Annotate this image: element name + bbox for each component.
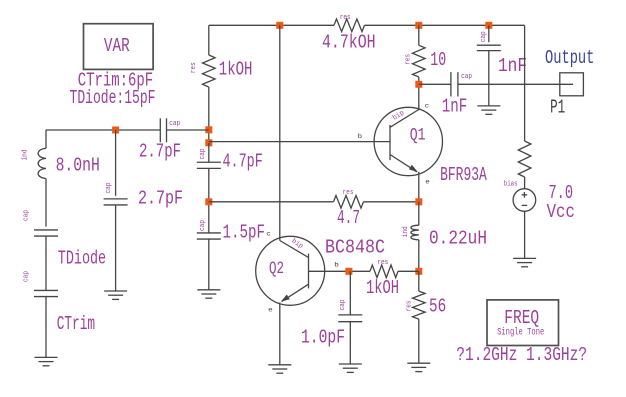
capacitor C 1nF shunt — [477, 31, 527, 77]
svg-text:cap: cap — [480, 31, 488, 42]
resistor R 56 — [406, 291, 447, 319]
simulation box FREQ — [487, 300, 559, 346]
port P1 — [545, 47, 594, 119]
resistor R 4.7 — [334, 189, 364, 229]
wire mid rail b — [208, 168, 210, 233]
capacitor C 1nF series — [442, 72, 472, 117]
wire Q1 collector — [418, 84, 420, 110]
capacitor C 4.7pF — [197, 149, 263, 173]
node junction rail-cap — [205, 126, 212, 133]
capacitor C 2.7pF series — [139, 118, 181, 162]
label BC848C — [325, 237, 385, 259]
svg-text:1kOH: 1kOH — [366, 277, 399, 299]
wire res56 top — [418, 271, 420, 291]
ground vcc — [513, 258, 536, 266]
wire rail x209 upper — [208, 25, 210, 55]
wire ind rail bottom — [418, 240, 420, 271]
capacitor C CTrim — [22, 271, 95, 335]
svg-text:BC848C: BC848C — [325, 237, 385, 259]
svg-text:cap: cap — [169, 120, 180, 128]
wire 1nF shunt top — [488, 25, 490, 42]
wire vcc rail top — [524, 25, 526, 141]
ground Q2 emitter — [268, 365, 291, 373]
wire res56 bottom — [418, 319, 420, 363]
svg-text:bip: bip — [290, 238, 304, 251]
wire top rail right — [365, 24, 525, 26]
wire base2 left — [309, 270, 371, 272]
svg-text:VAR: VAR — [104, 35, 130, 57]
wire vcc rail mid — [524, 177, 526, 189]
svg-text:cap: cap — [199, 220, 207, 231]
svg-text:2.7pF: 2.7pF — [139, 140, 181, 162]
capacitor C TDiode — [22, 210, 106, 270]
inductor L 8.0nH — [21, 148, 99, 178]
svg-text:e: e — [425, 178, 430, 185]
svg-text:res: res — [343, 189, 354, 197]
svg-text:bias: bias — [504, 181, 518, 189]
svg-text:Output: Output — [545, 47, 594, 69]
svg-text:BFR93A: BFR93A — [440, 164, 487, 186]
wire Q2 emitter — [279, 303, 281, 365]
capacitor C 1.5pF — [197, 220, 265, 243]
svg-text:TDiode:15pF: TDiode:15pF — [70, 87, 156, 109]
transistor Q2 — [256, 231, 339, 314]
wire mid rail c — [208, 239, 210, 290]
node junction collector — [415, 81, 422, 88]
svg-text:c: c — [266, 231, 271, 238]
wire left horiz b — [167, 129, 209, 131]
wire res4.7 right — [364, 201, 419, 203]
wire left branch mid2 — [45, 236, 47, 290]
svg-text:cap: cap — [461, 73, 472, 81]
resistor R 1kOH vertical — [190, 55, 252, 87]
ground res56 — [407, 363, 430, 371]
wire top rail left — [209, 24, 334, 26]
resistor R 4.7kOH — [322, 14, 376, 54]
wire left horiz — [46, 129, 160, 131]
svg-text:e: e — [268, 307, 273, 314]
svg-text:TDiode: TDiode — [58, 248, 106, 270]
ground mid rail — [197, 290, 220, 298]
transistor Q1 — [374, 102, 442, 185]
svg-text:10: 10 — [430, 49, 446, 71]
node junction Q2 base — [345, 268, 352, 275]
resistor R 10 — [405, 45, 446, 77]
svg-text:ind: ind — [402, 226, 410, 237]
svg-text:P1: P1 — [550, 97, 565, 119]
svg-text:cap: cap — [105, 183, 113, 194]
wire 1nF shunt bottom — [488, 51, 490, 106]
resistor R 1kOH bottom — [366, 259, 399, 299]
svg-text:Q1: Q1 — [410, 126, 426, 146]
svg-text:56: 56 — [429, 296, 446, 318]
svg-text:1.5pF: 1.5pF — [223, 221, 266, 243]
svg-text:4.7kOH: 4.7kOH — [322, 32, 376, 54]
node junction rail-base — [205, 139, 212, 146]
ground 1nF shunt — [477, 106, 500, 114]
svg-text:FREQ: FREQ — [504, 307, 539, 329]
wire rail x209 to junction — [208, 87, 210, 143]
ground left branch — [35, 357, 58, 365]
svg-text:ind: ind — [21, 150, 29, 161]
wire vcc rail bottom — [524, 211, 526, 258]
svg-text:4.7: 4.7 — [337, 207, 360, 229]
svg-text:Vcc: Vcc — [547, 201, 575, 223]
svg-text:8.0nH: 8.0nH — [56, 154, 100, 176]
wire Q1 base — [209, 133, 390, 141]
svg-text:2.7pF: 2.7pF — [138, 187, 183, 209]
ground shunt branch — [104, 291, 127, 299]
svg-text:res: res — [377, 259, 388, 267]
wire Q2 collector rail — [279, 25, 281, 240]
node junction top-right — [485, 22, 492, 29]
wire res10 top — [418, 25, 420, 45]
wire ind rail top — [418, 202, 420, 225]
svg-text:res: res — [406, 300, 414, 311]
VAR text CTrim:6pF — [78, 69, 153, 91]
svg-text:1kOH: 1kOH — [219, 59, 253, 81]
label frequency range — [456, 344, 587, 366]
VAR text TDiode:15pF — [70, 87, 156, 109]
svg-text:1nF: 1nF — [498, 55, 527, 77]
svg-text:CTrim: CTrim — [57, 313, 95, 335]
wire res10 bottom — [418, 77, 420, 84]
wire shunt branch top — [115, 130, 117, 196]
svg-text:cap: cap — [199, 149, 207, 160]
source V1 bias 7.0 Vcc — [504, 181, 575, 223]
wire left branch top — [45, 130, 47, 148]
svg-text:b: b — [358, 133, 363, 140]
svg-text:cap: cap — [339, 300, 347, 311]
wire left branch bottom — [45, 297, 47, 358]
wire shunt branch bottom — [115, 205, 117, 291]
wire base2 right — [398, 270, 419, 272]
capacitor C 1.0pF — [301, 300, 362, 349]
node junction mid rail — [205, 198, 212, 205]
svg-text:0.22uH: 0.22uH — [429, 228, 487, 250]
node junction top-left — [276, 22, 283, 29]
wire output b — [458, 83, 573, 85]
svg-text:4.7pF: 4.7pF — [223, 150, 263, 172]
wire c1.0 top — [349, 271, 351, 315]
ground c1.0 — [339, 364, 362, 372]
svg-text:res: res — [190, 62, 198, 73]
node junction emitter — [415, 198, 422, 205]
svg-text:c: c — [425, 102, 430, 109]
svg-text:Q2: Q2 — [269, 259, 284, 279]
label BFR93A — [440, 164, 487, 186]
svg-text:1.0pF: 1.0pF — [301, 327, 345, 349]
wire res4.7 left — [209, 201, 334, 203]
wire left branch mid — [45, 179, 47, 227]
svg-text:cap: cap — [22, 271, 30, 282]
svg-text:cap: cap — [22, 210, 30, 221]
resistor R bias — [518, 141, 531, 177]
wire mid rail a — [208, 143, 210, 162]
wire output a — [419, 83, 451, 85]
svg-text:res: res — [405, 54, 413, 65]
svg-text:Single Tone: Single Tone — [497, 327, 544, 339]
svg-text:?1.2GHz 1.3GHz?: ?1.2GHz 1.3GHz? — [456, 344, 587, 366]
node junction left — [112, 127, 119, 134]
inductor L 0.22uH — [402, 225, 487, 249]
node junction mid-right — [415, 268, 422, 275]
svg-text:b: b — [334, 262, 339, 269]
svg-text:res: res — [340, 14, 351, 22]
node junction top-mid — [415, 22, 422, 29]
wire c1.0 bottom — [349, 322, 351, 364]
capacitor C 2.7pF shunt — [104, 183, 183, 210]
equation box VAR — [84, 24, 154, 70]
wire Q1 emitter — [418, 172, 420, 202]
svg-text:1nF: 1nF — [442, 96, 468, 118]
